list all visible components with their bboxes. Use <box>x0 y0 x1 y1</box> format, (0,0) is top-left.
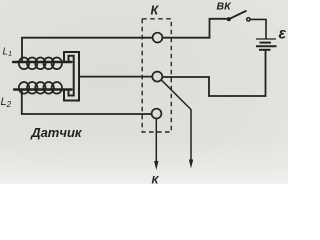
coil L2 axis bar <box>14 88 72 90</box>
coil L1 axis bar <box>13 61 72 63</box>
svg-text:К: К <box>151 4 160 18</box>
arrow to K (from bottom terminal) <box>154 119 158 170</box>
arrow (from middle terminal, diagonal) <box>162 80 194 168</box>
wire: switch to battery top <box>250 19 266 38</box>
switch BK lever <box>229 11 246 19</box>
terminal circle bottom <box>152 109 162 119</box>
coil L2 loops <box>19 82 62 94</box>
terminal circle middle <box>152 72 162 82</box>
wire: top run from L1 to terminal block <box>22 38 152 62</box>
svg-text:ВК: ВК <box>217 1 233 13</box>
battery E plates <box>256 39 277 50</box>
terminal circle top <box>153 33 163 43</box>
switch BK contact dot <box>227 17 231 21</box>
core inner bracket <box>69 56 74 96</box>
wire: battery bottom return loop to middle terminal <box>163 51 266 97</box>
paper background <box>0 0 288 184</box>
core outer bracket <box>64 52 79 101</box>
svg-text:Датчик: Датчик <box>30 125 83 140</box>
terminal block dashed box K <box>142 19 171 132</box>
coil L1 loops <box>19 58 62 70</box>
wire: center tap to middle terminal <box>79 76 152 78</box>
switch BK right contact <box>247 18 250 21</box>
wire: bottom run from L2 to terminal block <box>22 90 152 115</box>
wire: top terminal to switch <box>163 19 227 38</box>
svg-text:ε: ε <box>279 26 287 43</box>
